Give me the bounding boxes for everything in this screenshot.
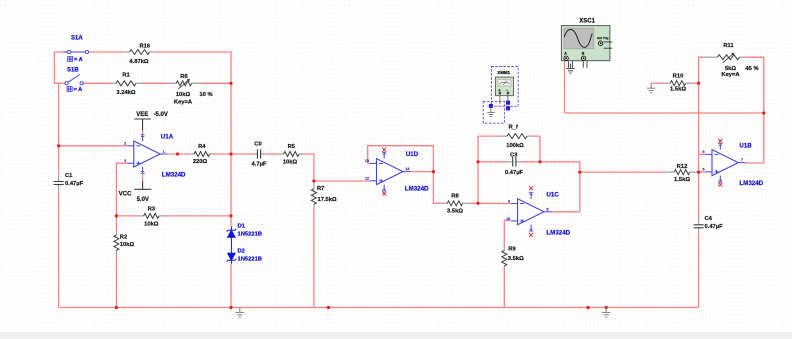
- svg-text:VEE: VEE: [136, 112, 148, 118]
- capacitor C3: [507, 161, 513, 163]
- ground bottom rail right: [602, 308, 610, 318]
- wire rail down to U1B output: [763, 113, 765, 163]
- svg-text:LM324D: LM324D: [546, 230, 570, 237]
- wire top row: rail corner to S1A: [54, 51, 65, 53]
- no-connect X on U1B VEE pin: [718, 183, 722, 187]
- svg-text:LM324D: LM324D: [739, 180, 763, 187]
- potentiometer R6: [170, 82, 177, 84]
- svg-text:12: 12: [365, 177, 369, 181]
- wire U1D feedback: inverting input up and over to output: [368, 146, 434, 172]
- svg-text:D2: D2: [238, 249, 245, 255]
- wire R10 ground stub to R10: [651, 82, 665, 84]
- svg-text:XMM1: XMM1: [497, 70, 510, 75]
- power VEE -5.0V: [134, 119, 151, 131]
- resistor R2: [115, 232, 117, 235]
- wire left rail lower (below C1) to bottom rail: [58, 192, 60, 308]
- svg-text:R2: R2: [120, 235, 127, 241]
- wire node column x=231 down from row2 to D1: [230, 83, 232, 226]
- node junction R5/R7/U1D input: [312, 179, 315, 182]
- svg-text:R16: R16: [140, 44, 151, 50]
- svg-text:3.5kΩ: 3.5kΩ: [508, 256, 524, 262]
- svg-text:8: 8: [547, 207, 549, 211]
- svg-text:R4: R4: [198, 144, 206, 150]
- ground under XSC1 A channel: [566, 64, 574, 74]
- resistor R5: [280, 153, 284, 155]
- capacitor C1: [58, 174, 60, 181]
- svg-text:R12: R12: [677, 164, 688, 170]
- wire node column x=231 below D2 to bottom rail: [230, 264, 232, 308]
- wire R_f/C3 left vertical: [478, 136, 501, 203]
- svg-text:U1C: U1C: [546, 191, 559, 198]
- wire R7 bottom to bottom rail: [313, 207, 315, 307]
- svg-text:1N5221B: 1N5221B: [238, 231, 263, 237]
- svg-text:3.24kΩ: 3.24kΩ: [116, 90, 136, 96]
- svg-text:2: 2: [124, 142, 126, 146]
- svg-text:7: 7: [741, 158, 743, 162]
- no-connect X on U1C VCC pin: [529, 186, 533, 190]
- svg-text:220Ω: 220Ω: [193, 159, 208, 165]
- svg-text:LM324D: LM324D: [405, 186, 429, 193]
- zener diode D2 and interconnect: [227, 237, 237, 263]
- wire row2: S1B stub from rail: [59, 82, 65, 84]
- svg-text:S1A: S1A: [71, 36, 83, 42]
- svg-text:1: 1: [163, 150, 165, 154]
- wire bottom rail: [59, 307, 699, 309]
- wire node column to C0: [231, 153, 253, 155]
- node junction x=116.4 / bottom rail: [115, 306, 118, 309]
- svg-text:S1B: S1B: [67, 68, 79, 74]
- svg-text:U1A: U1A: [161, 134, 174, 141]
- ground at R10: [647, 83, 655, 93]
- wire R7 node down to R7: [313, 181, 315, 186]
- node junction x=116.4 / R3: [115, 214, 118, 217]
- wire U1C output to corner: [550, 211, 579, 213]
- svg-text:R7: R7: [317, 186, 324, 192]
- wire top-right rail from oscilloscope A: [565, 59, 764, 113]
- wire R5 right, corner down to R7 node: [304, 154, 314, 181]
- wire R3 row left: [116, 215, 137, 217]
- wire R11 right down to top-right rail: [746, 57, 764, 113]
- node junction x=231 / R3 row: [229, 214, 232, 217]
- svg-text:C0: C0: [254, 141, 261, 147]
- resistor R4: [191, 153, 195, 155]
- switch S1A (closed): [64, 50, 89, 53]
- node junction x=231 / bottom rail: [229, 306, 232, 309]
- ground selection box for XMM1: [483, 101, 504, 123]
- label key=A for S1B: [67, 86, 72, 91]
- wire x=116.4 column below R2 to bottom rail: [115, 254, 117, 308]
- svg-text:-5.0V: -5.0V: [154, 112, 168, 118]
- wire U1C non-inverting input from R9 column: [504, 220, 511, 249]
- resistor R12: [666, 171, 674, 173]
- no-connect X on U1C VEE pin: [529, 233, 533, 237]
- svg-text:3: 3: [124, 159, 126, 163]
- svg-text:R9: R9: [508, 247, 516, 253]
- multimeter XMM1 selection box: [491, 67, 518, 107]
- wire top row: R16 to right corner, down to row2: [156, 52, 232, 83]
- node junction bottom rail a: [327, 306, 330, 309]
- svg-text:13: 13: [365, 159, 369, 163]
- svg-text:= A: = A: [74, 87, 83, 93]
- wire C3 row right, over to x=579.8 and down to U1C output: [521, 162, 580, 212]
- node junction U1D output/feedback: [432, 170, 435, 173]
- switch S1B (open): [65, 75, 83, 85]
- op-amp U1B: [712, 150, 738, 176]
- multimeter XMM1 body: [495, 77, 513, 104]
- svg-text:9: 9: [508, 199, 510, 203]
- svg-text:10kΩ: 10kΩ: [144, 221, 159, 227]
- node junction x=231 / row2: [229, 82, 232, 85]
- wire C0 to R5: [266, 153, 280, 155]
- svg-text:R6: R6: [180, 74, 188, 80]
- wire U1A output to R4: [167, 153, 190, 155]
- svg-text:3.5kΩ: 3.5kΩ: [447, 209, 463, 215]
- label key=A for S1A: [68, 56, 73, 61]
- wire top row: S1A to R16: [89, 51, 124, 53]
- op-amp U1A: [134, 141, 160, 167]
- svg-text:10kΩ: 10kΩ: [120, 242, 135, 248]
- svg-text:17.5kΩ: 17.5kΩ: [318, 197, 338, 203]
- svg-text:1.5kΩ: 1.5kΩ: [670, 87, 686, 93]
- resistor R9: [503, 249, 505, 250]
- op-amp U1D: [377, 159, 403, 185]
- op-amp U1C: [518, 199, 544, 225]
- svg-text:C1: C1: [65, 173, 73, 179]
- wire left rail top segment: [54, 52, 58, 83]
- wire below C4 to bottom rail corner: [698, 233, 700, 307]
- node junction x=231 / R4-C0 row: [229, 152, 232, 155]
- capacitor C0: [253, 153, 258, 155]
- wire R11 left column vertical (R11 left down past R10 to U1B area): [699, 57, 703, 154]
- resistor R10: [665, 82, 670, 84]
- wire left rail middle (above C1): [58, 83, 60, 174]
- wire R_f right to right vertical: [533, 136, 540, 162]
- wire U1D output to feedback junction: [410, 171, 434, 173]
- wire R7 node to U1D non-inverting input: [314, 180, 370, 182]
- wire stub from XMM1 probes (selected, dashed red): [486, 105, 510, 107]
- wire U1B output: [745, 162, 763, 164]
- resistor R7: [313, 186, 315, 189]
- wire U1A non-inverting input from x=116.4 column: [116, 163, 127, 231]
- ground inside XMM1 box: [487, 108, 495, 117]
- svg-text:4.7µF: 4.7µF: [252, 162, 267, 168]
- node junction left rail / U1A inverting: [57, 144, 60, 147]
- node junction C3 left: [476, 160, 479, 163]
- node junction R10/R11 column: [697, 82, 700, 85]
- wire feedback node to R12: [580, 171, 666, 173]
- svg-text:10: 10: [506, 217, 510, 221]
- no-connect X on U1B VCC pin: [718, 139, 722, 143]
- svg-text:R_f: R_f: [509, 124, 518, 130]
- wire row2: R1 to R6: [142, 82, 170, 84]
- svg-text:5.0V: 5.0V: [137, 197, 149, 203]
- svg-text:0.47µF: 0.47µF: [65, 181, 84, 187]
- resistor R3: [138, 215, 144, 217]
- svg-text:0.47µF: 0.47µF: [505, 170, 524, 176]
- svg-text:R5: R5: [288, 144, 296, 150]
- svg-text:10kΩ: 10kΩ: [283, 160, 298, 166]
- svg-text:D1: D1: [238, 224, 246, 230]
- svg-text:100kΩ: 100kΩ: [506, 143, 524, 149]
- resistor R_f: [501, 135, 507, 137]
- potentiometer R11: [703, 56, 717, 58]
- svg-text:VCC: VCC: [119, 191, 132, 197]
- svg-text:= A: = A: [74, 57, 83, 63]
- svg-text:C4: C4: [705, 216, 713, 222]
- node junction C3 right: [538, 160, 541, 163]
- oscilloscope XSC1: [561, 26, 612, 68]
- svg-text:45 %: 45 %: [745, 66, 758, 72]
- node junction bottom rail ground: [605, 306, 608, 309]
- wire R10 to R11-left column: [691, 82, 699, 84]
- wire R3 row right to node column: [165, 215, 231, 217]
- svg-text:Key=A: Key=A: [721, 72, 740, 78]
- ground bottom rail left: [236, 308, 244, 318]
- svg-text:B: B: [582, 51, 585, 55]
- no-connect X on U1D VEE pin: [382, 192, 386, 196]
- wire R11 left column continues to C4: [698, 154, 700, 219]
- resistor R1: [111, 82, 117, 84]
- wire row2: R6 to node column: [200, 82, 231, 84]
- node junction at U1A output: [176, 152, 179, 155]
- wire R_f/C3 left node to U1C inverting input: [478, 202, 511, 204]
- power VCC 5.0V: [142, 173, 144, 181]
- node junction U1C output feedback / R12: [578, 171, 581, 174]
- svg-text:A: A: [564, 51, 567, 55]
- svg-text:0.47µF: 0.47µF: [705, 224, 724, 230]
- no-connect X on U1D VCC pin: [382, 148, 386, 152]
- wire R9 bottom to bottom rail: [503, 268, 505, 308]
- svg-text:Key=A: Key=A: [174, 99, 193, 105]
- wire stub to U1B inverting input: [699, 153, 706, 155]
- svg-text:10 %: 10 %: [199, 92, 212, 98]
- svg-text:4.87kΩ: 4.87kΩ: [129, 59, 149, 65]
- resistor R16: [124, 51, 130, 53]
- svg-text:R3: R3: [148, 207, 156, 213]
- wire R12 to U1B plus node: [696, 171, 706, 173]
- svg-text:U1B: U1B: [739, 143, 752, 150]
- svg-text:10kΩ: 10kΩ: [176, 92, 191, 98]
- node junction bottom rail b: [587, 306, 590, 309]
- svg-text:R11: R11: [723, 43, 734, 49]
- wire U1A inverting input from left rail: [59, 145, 128, 147]
- node junction R12/U1B plus/C4: [697, 171, 700, 174]
- svg-text:1N5221B: 1N5221B: [238, 256, 263, 262]
- XMM1 probe connector squares: [489, 104, 493, 108]
- svg-text:R10: R10: [673, 73, 684, 79]
- zener diode D1: [227, 227, 237, 238]
- svg-text:XSC1: XSC1: [579, 18, 595, 24]
- svg-text:5: 5: [703, 168, 705, 172]
- svg-text:Ext Trig: Ext Trig: [597, 36, 608, 40]
- svg-text:R1: R1: [122, 73, 130, 79]
- svg-text:1.5kΩ: 1.5kΩ: [674, 177, 690, 183]
- resistor R8: [441, 202, 448, 204]
- svg-text:U1D: U1D: [406, 151, 419, 158]
- wire C3 row left: [478, 161, 507, 163]
- svg-text:C3: C3: [510, 153, 518, 159]
- wire R8 to R_f/C3 left node: [470, 202, 479, 204]
- svg-text:6: 6: [703, 150, 705, 154]
- wire from U1D output junction down and to R8: [433, 172, 440, 204]
- svg-text:LM324D: LM324D: [162, 172, 186, 179]
- node junction rail/R11/U1B output: [762, 111, 765, 114]
- svg-text:R8: R8: [451, 194, 459, 200]
- node junction R8/R_f/U1C input: [476, 202, 479, 205]
- wire row2: S1B to R1: [83, 82, 110, 84]
- capacitor C4: [698, 220, 700, 225]
- wire R4 to node column: [213, 153, 231, 155]
- svg-text:14: 14: [405, 167, 409, 171]
